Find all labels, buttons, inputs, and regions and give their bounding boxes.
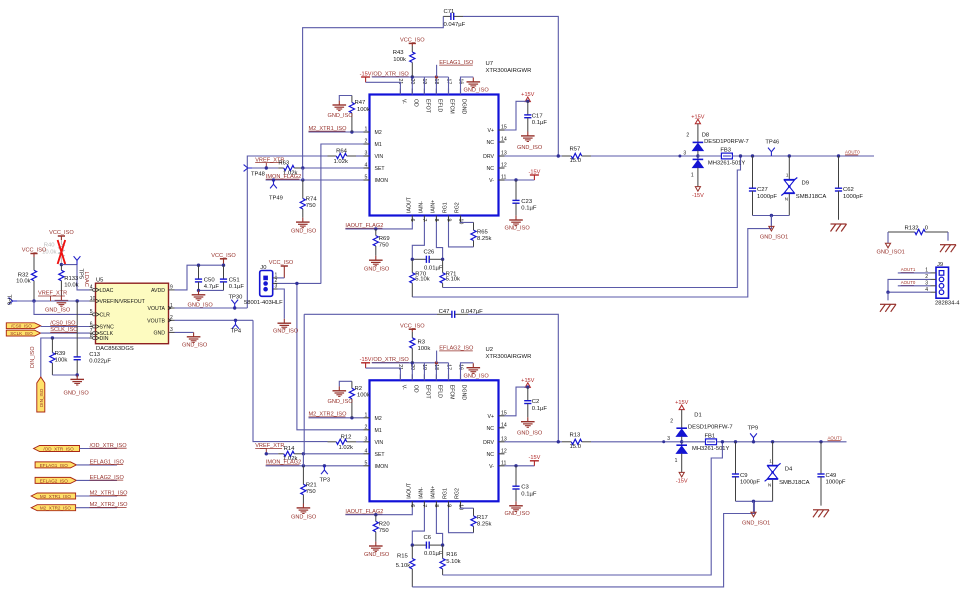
svg-text:R17: R17 xyxy=(477,515,488,521)
wire DIN row xyxy=(41,338,90,377)
svg-text:GND_ISO: GND_ISO xyxy=(505,511,531,517)
resistor R16 5.10k xyxy=(440,545,461,575)
resistor R40 10.0k not installed xyxy=(42,240,64,265)
junction IMON/feedback U7 xyxy=(301,178,304,181)
svg-text:C2: C2 xyxy=(532,399,540,405)
svg-text:3: 3 xyxy=(667,436,670,442)
svg-text:1: 1 xyxy=(365,412,368,418)
ground GND_ISO at C3 xyxy=(505,501,531,517)
op-amp U2 XTR300AIRGWR body xyxy=(370,347,532,502)
testpoint TP4 xyxy=(231,320,242,334)
wire VOUTA row xyxy=(175,307,248,309)
resistor R12 1.02k series xyxy=(328,434,357,450)
wire R13 to D1 xyxy=(591,441,682,443)
wire M1 link lower xyxy=(297,284,364,430)
U7 bottom pins IAOUT IAIN- IAIN+ RG1 RG2 xyxy=(407,196,464,224)
junction R32 bottom xyxy=(32,299,35,302)
ground GND_ISO at DGND U2 xyxy=(461,363,490,381)
svg-text:6: 6 xyxy=(409,504,415,507)
U2 left pins M2 M1 VIN SET IMON xyxy=(364,412,389,469)
svg-text:10: 10 xyxy=(457,219,463,225)
svg-text:GND_ISO: GND_ISO xyxy=(45,308,71,314)
ground GND_ISO at C17 xyxy=(517,132,543,151)
power -15V at C23 xyxy=(528,169,540,180)
wire C71 feedback right segment xyxy=(463,16,558,156)
svg-text:IAIN+: IAIN+ xyxy=(431,486,437,499)
svg-text:8.25k: 8.25k xyxy=(477,522,491,528)
svg-text:7: 7 xyxy=(421,219,427,222)
wire IMON row U2 xyxy=(266,465,364,467)
svg-text:R47: R47 xyxy=(355,100,366,106)
svg-text:V-: V- xyxy=(489,178,494,184)
svg-text:VIN: VIN xyxy=(375,154,384,160)
net label EFLAG2_ISO xyxy=(90,475,125,481)
junction at R-pullup U2 xyxy=(411,361,414,364)
svg-text:5.10k: 5.10k xyxy=(446,559,460,565)
wire DRV to R13 xyxy=(505,441,563,443)
svg-text:EFLAG1_ISO: EFLAG1_ISO xyxy=(40,463,69,468)
svg-text:4: 4 xyxy=(365,448,368,454)
svg-text:J0: J0 xyxy=(260,265,266,271)
wire EFLAG1_ISO stub xyxy=(76,464,117,466)
svg-text:R65: R65 xyxy=(477,229,489,235)
svg-text:1: 1 xyxy=(769,458,772,463)
junction ground rail U2 xyxy=(752,500,755,503)
svg-text:3: 3 xyxy=(365,151,368,157)
junction C50 bottom xyxy=(197,289,200,292)
wire VOUTB row xyxy=(175,319,254,321)
capacitor C71 xyxy=(443,9,465,28)
junction ground rail U7 xyxy=(770,214,773,217)
diode D8 DESD1P0RFW-7 pin3 dot xyxy=(678,150,686,157)
svg-text:RG1: RG1 xyxy=(443,202,449,213)
testpoint TP46 xyxy=(765,140,779,156)
junction C26 right xyxy=(441,258,444,261)
power -15V at D1 xyxy=(676,453,688,484)
svg-text:NC: NC xyxy=(487,452,495,458)
svg-text:8.25k: 8.25k xyxy=(477,236,491,242)
resistor R17 8.25k xyxy=(449,508,492,533)
svg-text:DESD1P0RFW-7: DESD1P0RFW-7 xyxy=(704,139,749,145)
svg-text:1000pF: 1000pF xyxy=(843,194,863,200)
svg-text:J9: J9 xyxy=(937,262,943,268)
svg-text:750: 750 xyxy=(306,203,317,209)
U7 top pins V- OD EFOT EFLD EFCM DGND xyxy=(397,79,467,115)
svg-text:9: 9 xyxy=(445,219,451,222)
svg-text:V+: V+ xyxy=(488,128,495,134)
connector J9 282834-4 body xyxy=(935,262,960,307)
net label DIN_ISO vertical xyxy=(30,346,36,368)
resistor R133 10.0k xyxy=(59,265,79,297)
svg-text:5.10k: 5.10k xyxy=(415,276,429,282)
svg-text:XTR300AIRGWR: XTR300AIRGWR xyxy=(486,68,532,74)
svg-text:R74: R74 xyxy=(306,197,318,203)
junction +15V C2 xyxy=(526,385,529,388)
capacitor C3 0.1uF xyxy=(512,466,536,502)
capacitor C17 0.1uF xyxy=(524,101,547,131)
wire IAIN+ to rail xyxy=(436,222,442,259)
svg-text:2: 2 xyxy=(686,133,689,139)
svg-text:14: 14 xyxy=(501,137,507,143)
resistor R39 100k xyxy=(50,338,68,375)
wire EFLAG2_ISO stub xyxy=(76,479,117,481)
svg-text:D9: D9 xyxy=(802,181,810,187)
net label IMON_FLAG2 U7 xyxy=(266,174,301,180)
junction output node U7 xyxy=(739,154,742,157)
diode D4 SMBJ18CA TVS xyxy=(765,442,810,502)
svg-text:GND_ISO1: GND_ISO1 xyxy=(742,520,770,526)
ground GND_ISO at C2 xyxy=(517,417,543,436)
net label EFLAG2_ISO xyxy=(437,346,474,363)
svg-text:750: 750 xyxy=(306,489,317,495)
svg-text:D4: D4 xyxy=(785,466,793,472)
ground GND_ISO at J0 xyxy=(273,319,299,335)
svg-text:AOUT0: AOUT0 xyxy=(901,280,916,285)
testpoint TP5 xyxy=(74,256,84,279)
wire R70 to GND_ISO1 rail xyxy=(412,215,771,297)
wire J9 pin4 xyxy=(888,291,931,293)
capacitor C50 4.7uF xyxy=(195,265,219,290)
net label VREF_XTR lower xyxy=(255,443,284,454)
junction at R-pullup U7 xyxy=(411,75,414,78)
junction V- C3 xyxy=(514,464,517,467)
U2 right pins V+ NC DRV NC V- xyxy=(483,410,507,469)
wire R132 left xyxy=(887,232,889,243)
svg-text:GND_ISO1: GND_ISO1 xyxy=(877,250,905,256)
svg-text:M2_XTR1_ISO: M2_XTR1_ISO xyxy=(40,494,72,499)
svg-text:2: 2 xyxy=(365,139,368,145)
junction TP30 xyxy=(233,306,236,309)
svg-text:TP48: TP48 xyxy=(251,172,265,178)
svg-text:MH3261-501Y: MH3261-501Y xyxy=(708,160,746,166)
svg-text:GND: GND xyxy=(153,330,165,336)
earth ground at J9 xyxy=(880,304,896,312)
U7 right pins V+ NC DRV NC V- xyxy=(483,125,507,184)
resistor R132 0 xyxy=(888,226,948,235)
svg-text:VOUTA: VOUTA xyxy=(148,306,166,312)
svg-text:100k: 100k xyxy=(55,357,68,363)
wire FB3 to output xyxy=(732,155,874,157)
wire SET row right xyxy=(303,167,364,169)
wire feedback node vertical xyxy=(302,168,304,180)
wire V+ pin to +15V xyxy=(505,101,528,130)
svg-text:R64: R64 xyxy=(336,149,348,155)
wire V+ pin to +15V xyxy=(505,387,528,416)
svg-text:4: 4 xyxy=(365,163,368,169)
junction TP4 xyxy=(234,319,237,322)
svg-text:C26: C26 xyxy=(424,249,436,255)
ground GND_ISO at DAC GND xyxy=(182,332,208,348)
resistor R69 750 xyxy=(373,229,389,256)
svg-text:R21: R21 xyxy=(306,482,317,488)
wire /OD_XTR_ISO bus U7 xyxy=(372,77,449,95)
svg-text:3: 3 xyxy=(365,436,368,442)
wire R71 to output node xyxy=(443,156,741,288)
svg-text:4.7µF: 4.7µF xyxy=(204,284,220,290)
svg-text:0.1µF: 0.1µF xyxy=(229,284,245,290)
junction C13 bottom xyxy=(76,373,79,376)
wire IAOUT row U2 xyxy=(345,508,412,515)
power VCC_ISO above R3 xyxy=(400,323,425,331)
junction C13 riser xyxy=(76,299,79,302)
junction C6 left xyxy=(411,543,414,546)
svg-text:EFLD: EFLD xyxy=(437,99,443,113)
net flag /CS0_ISO xyxy=(6,323,40,329)
svg-text:R12: R12 xyxy=(341,434,352,440)
wire IMON row U7 xyxy=(266,179,364,181)
svg-text:1: 1 xyxy=(365,127,368,133)
net label M2_XTR1_ISO xyxy=(309,126,348,132)
svg-text:EFLAG2_ISO: EFLAG2_ISO xyxy=(40,478,69,483)
svg-text:AOUT1: AOUT1 xyxy=(901,267,916,272)
wire DRV to R57 xyxy=(505,155,563,157)
resistor R70 5.10k xyxy=(410,259,430,297)
svg-text:9: 9 xyxy=(445,504,451,507)
svg-text:0.047µF: 0.047µF xyxy=(444,22,466,28)
wire J0 pin2 M1 net xyxy=(278,282,321,284)
wire J0 pin3 to ground xyxy=(278,289,285,319)
svg-text:DAC8563DGS: DAC8563DGS xyxy=(96,346,134,352)
resistor R20 750 xyxy=(373,515,390,542)
svg-text:58001-403HLF: 58001-403HLF xyxy=(244,300,283,306)
svg-text:NC: NC xyxy=(487,426,495,432)
net label M2_XTR1_ISO xyxy=(90,490,129,496)
ground GND_ISO at R69 xyxy=(364,256,390,272)
svg-text:0.01µF: 0.01µF xyxy=(424,551,443,557)
ground GND_ISO at C50 xyxy=(188,290,214,308)
net flag EFLAG2_ISO xyxy=(35,477,76,483)
junction J9 ground xyxy=(886,291,889,294)
svg-text:R20: R20 xyxy=(379,522,391,528)
capacitor C27 1000pF xyxy=(749,156,777,216)
svg-text:R132: R132 xyxy=(905,226,919,232)
svg-text:C71: C71 xyxy=(444,9,455,15)
svg-text:D8: D8 xyxy=(702,132,709,138)
svg-text:M1: M1 xyxy=(375,428,382,434)
svg-text:GND_ISO1: GND_ISO1 xyxy=(760,235,788,241)
svg-text:R63: R63 xyxy=(278,160,290,166)
svg-text:V-: V- xyxy=(401,99,407,104)
svg-text:-15V: -15V xyxy=(692,193,704,199)
resistor R71 5.10k xyxy=(440,259,460,287)
svg-text:TP3: TP3 xyxy=(320,477,331,483)
svg-text:R69: R69 xyxy=(379,236,390,242)
svg-text:GND_ISO: GND_ISO xyxy=(464,373,490,379)
testpoint TP6 xyxy=(6,295,18,306)
net label VREF_XTR upper xyxy=(255,157,284,168)
svg-text:IAIN-: IAIN- xyxy=(419,201,425,213)
svg-text:GND_ISO: GND_ISO xyxy=(273,329,299,335)
testpoint TP3 xyxy=(320,464,331,483)
svg-text:12: 12 xyxy=(501,163,507,169)
svg-text:IAIN-: IAIN- xyxy=(419,487,425,499)
junction C6 right xyxy=(441,543,444,546)
svg-text:7: 7 xyxy=(421,504,427,507)
diode D1 upper xyxy=(670,413,732,437)
svg-text:GND_ISO: GND_ISO xyxy=(517,431,543,437)
svg-text:14: 14 xyxy=(501,422,507,428)
junction SET/feedback U7 xyxy=(301,166,304,169)
svg-text:5: 5 xyxy=(365,460,368,466)
svg-text:EFCM: EFCM xyxy=(449,385,455,400)
svg-text:DIN_ISO: DIN_ISO xyxy=(30,346,36,368)
svg-text:C62: C62 xyxy=(843,187,854,193)
junction C62 top xyxy=(837,154,840,157)
svg-text:RG2: RG2 xyxy=(455,488,461,499)
svg-text:OD: OD xyxy=(413,385,419,393)
net flag EFLAG1_ISO xyxy=(35,462,76,468)
ground GND_ISO at C13 xyxy=(64,375,90,397)
power GND_ISO1 U2 xyxy=(742,501,770,526)
svg-text:/OD_XTR_ISO: /OD_XTR_ISO xyxy=(43,447,74,452)
resistor R3 100k xyxy=(410,332,431,363)
junction feedback cap right xyxy=(557,440,560,443)
capacitor C6 0.01uF rail xyxy=(412,535,443,557)
svg-text:5.10k: 5.10k xyxy=(396,563,410,569)
wire R15 to GND_ISO1 rail xyxy=(412,502,754,587)
ground GND_ISO at R133 xyxy=(45,296,71,313)
capacitor C51 0.1uF xyxy=(220,265,244,290)
svg-text:15.0: 15.0 xyxy=(570,158,582,164)
wire J9 pin3 xyxy=(898,285,931,287)
capacitor C49 1000pF xyxy=(817,442,845,506)
svg-text:/CS0_ISO: /CS0_ISO xyxy=(11,324,32,329)
resistor R2 100k pulldown xyxy=(339,381,370,418)
svg-text:GND_ISO: GND_ISO xyxy=(517,145,543,151)
diode D8 upper xyxy=(686,132,748,150)
resistor R64 1.02k series xyxy=(328,149,357,165)
svg-text:V-: V- xyxy=(401,385,407,390)
wire SET row right xyxy=(303,453,364,455)
svg-text:2: 2 xyxy=(670,418,673,424)
svg-text:750: 750 xyxy=(379,528,390,534)
svg-text:GND_ISO: GND_ISO xyxy=(188,302,214,308)
svg-text:3: 3 xyxy=(683,150,686,156)
power -15V at C3 xyxy=(528,455,540,466)
net flag M2_XTR2_ISO xyxy=(31,505,75,511)
wire TP6 VREFIN row xyxy=(17,300,90,302)
svg-text:C27: C27 xyxy=(757,187,768,193)
svg-text:LDAC: LDAC xyxy=(100,288,114,294)
svg-text:12: 12 xyxy=(501,448,507,454)
svg-text:DESD1P0RFW-7: DESD1P0RFW-7 xyxy=(688,425,733,431)
junction R40 R133 TP5 xyxy=(60,263,63,266)
wire CLR row xyxy=(34,301,90,314)
wire J9 pin2 to ground xyxy=(888,279,931,292)
net label EFLAG1_ISO xyxy=(437,60,474,77)
power VCC_ISO above R32 xyxy=(22,248,47,257)
net flag SCLK_ISO xyxy=(6,330,40,336)
resistor R57 15.0 xyxy=(562,147,591,165)
svg-text:N: N xyxy=(785,197,788,202)
wire V- pin to -15V xyxy=(505,465,535,467)
svg-text:GND_ISO: GND_ISO xyxy=(328,113,354,119)
svg-text:EFLD: EFLD xyxy=(437,385,443,399)
svg-text:N: N xyxy=(768,482,771,487)
net label M2_XTR2_ISO xyxy=(90,502,129,508)
svg-text:10.0k: 10.0k xyxy=(16,278,30,284)
power +15V at C2 xyxy=(521,378,534,388)
svg-text:SMBJ18CA: SMBJ18CA xyxy=(779,480,810,486)
junction V- C23 xyxy=(514,178,517,181)
svg-text:9: 9 xyxy=(170,285,173,291)
svg-text:1: 1 xyxy=(675,458,678,464)
svg-text:0.1µF: 0.1µF xyxy=(532,406,548,412)
wire C71 feedback left segment xyxy=(303,16,444,167)
net label M2_XTR2_ISO xyxy=(309,412,348,418)
ground GND_ISO at R47 xyxy=(328,101,354,119)
ground GND_ISO at R20 xyxy=(364,542,390,559)
power -15V at U7 pin 21 xyxy=(360,71,372,82)
ground GND_ISO at DGND U7 xyxy=(461,77,490,95)
wire IAIN- to rail xyxy=(412,222,424,259)
svg-text:2: 2 xyxy=(365,424,368,430)
svg-text:TP49: TP49 xyxy=(269,196,283,202)
wire pin21 to -15V xyxy=(366,368,401,380)
junction C49 top xyxy=(819,440,822,443)
power VCC_ISO at J0 xyxy=(269,260,294,278)
svg-text:SET: SET xyxy=(375,452,386,458)
wire VIN row from DAC VOUTA xyxy=(247,156,327,308)
junction +15V C17 xyxy=(526,100,529,103)
svg-text:DIN: DIN xyxy=(100,336,109,342)
svg-text:R14: R14 xyxy=(284,446,296,452)
junction M2/R2 xyxy=(350,416,353,419)
svg-text:R13: R13 xyxy=(570,432,582,438)
wire FB1 to output xyxy=(717,441,847,443)
wire VIN row from DAC VOUTB xyxy=(253,320,328,441)
junction feedback cap right xyxy=(557,154,560,157)
junction VREF U2 xyxy=(265,452,268,455)
svg-text:AOUT1: AOUT1 xyxy=(828,435,843,440)
power GND_ISO1 U7 xyxy=(760,216,788,241)
svg-text:3: 3 xyxy=(275,284,278,290)
svg-text:0.1µF: 0.1µF xyxy=(521,206,537,212)
svg-text:U5: U5 xyxy=(96,278,103,284)
ground GND_ISO at R21 xyxy=(291,504,317,521)
power GND_ISO1 at R132 xyxy=(877,243,905,255)
svg-text:0.1µF: 0.1µF xyxy=(521,491,537,497)
net label LDAC vertical xyxy=(83,272,89,287)
svg-text:GND_ISO: GND_ISO xyxy=(291,229,317,235)
net label /OD_XTR_ISO U2 xyxy=(372,357,410,363)
junction D9 top xyxy=(788,154,791,157)
svg-text:EFOT: EFOT xyxy=(425,99,431,114)
op-amp U7 XTR300AIRGWR body xyxy=(370,61,532,216)
capacitor C13 0.022uF xyxy=(74,301,112,375)
svg-text:GND_ISO: GND_ISO xyxy=(291,514,317,520)
wire /OD_XTR_ISO bus U2 xyxy=(372,363,449,381)
wire M2_XTR2_ISO stub xyxy=(76,507,117,509)
net flag M2_XTR1_ISO xyxy=(31,493,75,499)
wire M2 row U7 xyxy=(309,131,364,133)
wire IAOUT row U7 xyxy=(345,222,412,229)
svg-text:SCLK_ISO: SCLK_ISO xyxy=(10,331,33,336)
svg-text:AOUT0: AOUT0 xyxy=(845,150,860,155)
svg-text:M2_XTR2_ISO: M2_XTR2_ISO xyxy=(40,506,72,511)
svg-text:V-: V- xyxy=(489,464,494,470)
net label IMON_FLAG2 U2 xyxy=(266,460,301,466)
svg-text:DRV: DRV xyxy=(483,440,494,446)
wire feedback node vertical lower xyxy=(302,314,305,466)
svg-text:R57: R57 xyxy=(570,147,581,153)
svg-text:GND_ISO: GND_ISO xyxy=(364,552,390,558)
svg-text:1.02k: 1.02k xyxy=(339,445,353,451)
net label VREF_XTR at DAC xyxy=(38,291,67,301)
svg-text:XTR300AIRGWR: XTR300AIRGWR xyxy=(486,354,532,360)
junction C26 left xyxy=(411,258,414,261)
junction C50 top xyxy=(197,264,200,267)
